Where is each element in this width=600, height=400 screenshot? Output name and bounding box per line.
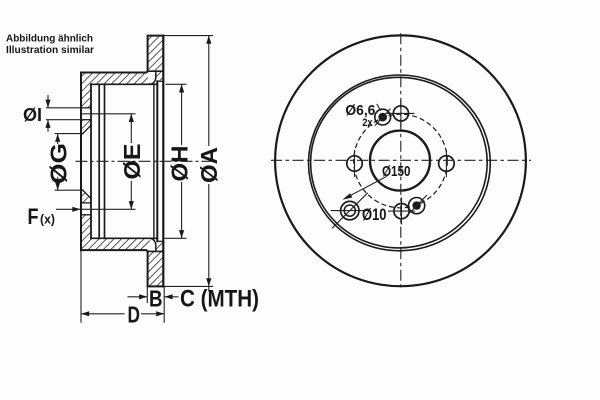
svg-text:(x): (x) [40, 212, 55, 227]
svg-text:ØH: ØH [167, 146, 193, 182]
svg-text:Abbildung ähnlich: Abbildung ähnlich [6, 33, 93, 44]
svg-text:D: D [128, 302, 141, 328]
svg-text:C (MTH): C (MTH) [180, 286, 259, 313]
svg-text:Ø10: Ø10 [362, 206, 387, 224]
svg-text:F: F [28, 204, 39, 229]
svg-text:B: B [149, 286, 163, 312]
svg-text:ØI: ØI [23, 105, 42, 125]
svg-text:Ø150: Ø150 [382, 164, 411, 180]
svg-text:2x: 2x [362, 117, 373, 129]
svg-text:ØA: ØA [196, 147, 222, 183]
svg-text:ØG: ØG [46, 143, 72, 184]
svg-text:ØE: ØE [119, 144, 145, 180]
svg-text:Illustration similar: Illustration similar [6, 45, 94, 56]
